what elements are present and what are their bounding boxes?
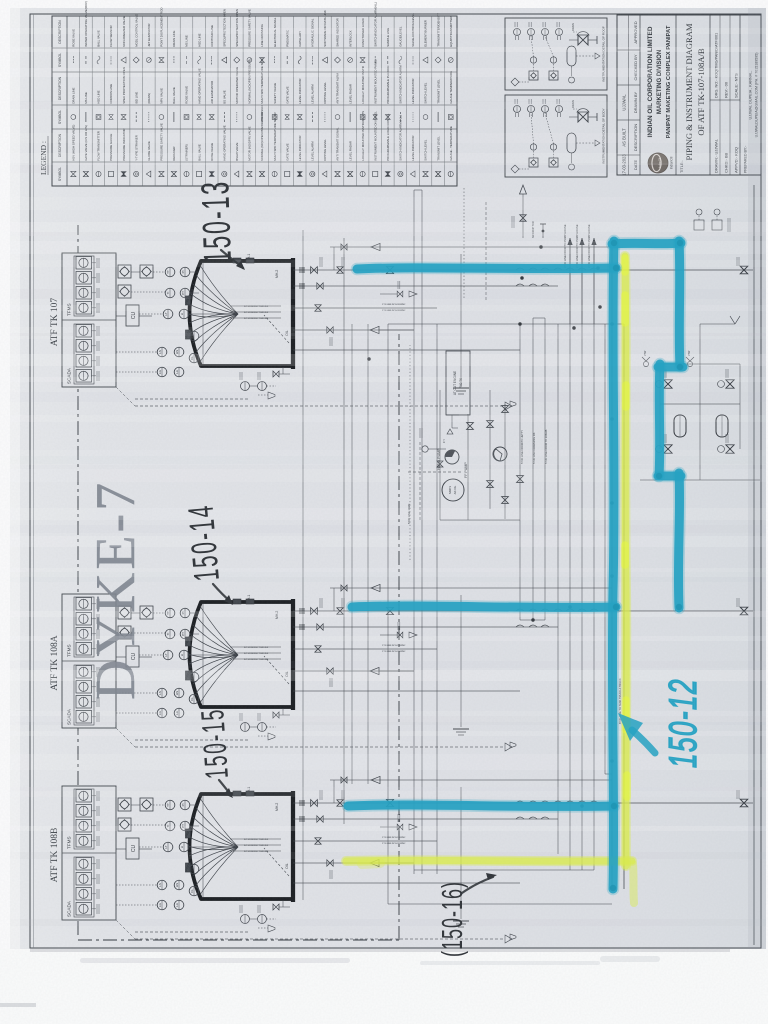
misc distribution lines: [367, 190, 624, 904]
legend table: [52, 1, 457, 186]
tank ATF TK 108A: [186, 595, 407, 710]
blue highlighter: tank1 branch: [357, 268, 616, 269]
signal dashed lines ATF TK 108B: [116, 920, 512, 943]
signal dashed lines ATF TK 108A: [116, 728, 512, 751]
yellow bright patches along vertical: [621, 295, 629, 323]
svg-text:150-12: 150-12: [662, 678, 706, 768]
blue highlighter: right vertical 1: [679, 241, 680, 366]
blue highlighter: main vertical header: [612, 241, 614, 889]
instrument cluster ATF TK 108A: [116, 606, 230, 718]
yellow short tail bottom: [633, 864, 634, 903]
yellow blob near line start: [362, 863, 380, 864]
bottom right valve manifold: [640, 316, 760, 480]
blue highlighter: jog right: [658, 470, 681, 483]
blue highlighter: right vertical 2: [659, 364, 660, 476]
blue highlighter: right vertical 3: [678, 473, 679, 608]
hand pump / FF pump cluster: [408, 345, 523, 560]
blue highlighter: tank3 branch: [348, 805, 614, 806]
yellow highlighter vertical along main header: [625, 256, 626, 866]
svg-text:150-14: 150-14: [181, 502, 228, 583]
signal dashed lines ATF TK 107: [116, 387, 512, 410]
outlet pipes ATF TK 108A: [233, 584, 753, 748]
drain assembly left of tank ATF TK 108A: [240, 708, 290, 740]
tank ATF TK 107: [186, 254, 407, 369]
svg-text:150-15: 150-15: [194, 707, 235, 781]
drain assembly left of tank ATF TK 108B: [240, 900, 290, 932]
SCADA/TFMS panel ATF TK 108B: [62, 786, 116, 920]
legend title: [39, 136, 48, 175]
instrumentation detail of roof box: [505, 18, 607, 90]
blue junction dots: [613, 265, 619, 271]
blue highlighter: jog left: [658, 361, 683, 374]
instrument cluster ATF TK 108B: [116, 798, 230, 910]
blue highlighter: top jog to right: [612, 243, 681, 244]
CU box ATF TK 108A: [116, 646, 152, 667]
dyke boundary dash-dot top: [78, 225, 399, 940]
yellow highlighter horizontal tank3 branch: [346, 855, 632, 866]
vent stack and PSV near top of main header: [512, 185, 546, 238]
outlet pipes ATF TK 108B: [233, 776, 753, 940]
CU box ATF TK 107: [116, 305, 152, 326]
blue arrow annotation: [632, 730, 655, 753]
CU box ATF TK 108B: [116, 838, 152, 859]
tank ATF TK 108B: [186, 787, 407, 902]
SCADA/TFMS panel ATF TK 108A: [62, 594, 116, 728]
svg-text:150-13: 150-13: [193, 179, 240, 264]
main pipe headers: [303, 186, 605, 904]
8 inch main header line (under blue highlight): [612, 238, 624, 889]
SCADA/TFMS panel ATF TK 107: [62, 253, 116, 387]
drain assembly left of tank ATF TK 107: [240, 367, 290, 399]
instrument cluster ATF TK 107: [116, 265, 230, 377]
small instrument group near title block: [694, 209, 730, 232]
instrumentation detail of body box: [505, 95, 607, 177]
outlet pipes ATF TK 107: [233, 243, 753, 407]
blue highlighter: tank2 branch: [352, 606, 616, 607]
title block: [617, 15, 761, 176]
